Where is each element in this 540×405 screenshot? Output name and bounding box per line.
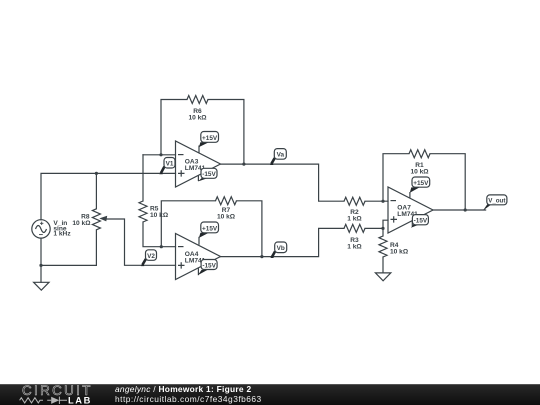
- wire R3 to OA7 + node: [365, 227, 383, 229]
- wire R8 top lead: [95, 173, 97, 208]
- resistor R3: [344, 224, 365, 232]
- junction dot: OA3 inverting node / R6 loop: [159, 153, 162, 156]
- resistor R7: [216, 197, 237, 205]
- flag +15V (OA7): [410, 177, 430, 193]
- wire R7 feedback loop left: [161, 201, 215, 247]
- junction dot: V_in bottom / ground: [39, 264, 42, 267]
- flag +15V (OA4): [199, 222, 219, 238]
- svg-text:10 kΩ: 10 kΩ: [390, 249, 409, 256]
- wire R1 feedback loop: [383, 154, 465, 210]
- wire R6 feedback loop right: [208, 100, 244, 165]
- junction dot: OA4 output / R7 loop: [260, 255, 263, 258]
- svg-text:10 kΩ: 10 kΩ: [217, 213, 236, 220]
- label V_in sine 1 kHz: [53, 220, 71, 238]
- junction dot: OA7 output / R1 loop: [464, 208, 467, 211]
- wire OA7 output to V_out: [433, 209, 486, 211]
- label R3 1 k: [347, 237, 362, 250]
- svg-text:10 kΩ: 10 kΩ: [188, 114, 207, 121]
- footer bar: [0, 384, 540, 405]
- svg-text:10 kΩ: 10 kΩ: [150, 212, 169, 219]
- svg-text:10 kΩ: 10 kΩ: [410, 169, 429, 176]
- label R1 10 k: [410, 162, 429, 176]
- R8 wiper arrow: [99, 216, 107, 222]
- wire OA3 - input: [143, 154, 176, 156]
- flag -15V (OA4): [198, 260, 217, 276]
- label R6 10 k: [188, 108, 207, 121]
- wire R2 to OA7 - input: [365, 200, 388, 202]
- flag -15V (OA3): [198, 168, 217, 181]
- junction dot: V_in top / R8: [95, 172, 98, 175]
- wire OA7 + input stub: [383, 220, 388, 228]
- label OA4 LM741: [185, 251, 206, 265]
- wire OA4 output to R3: [221, 228, 345, 256]
- svg-text:-15V: -15V: [202, 171, 216, 178]
- svg-text:Vb: Vb: [277, 245, 285, 252]
- wire R4 top lead: [382, 228, 384, 236]
- op-amp OA7: [388, 187, 433, 233]
- potentiometer R8: [92, 209, 106, 230]
- net flag Vb: [270, 242, 286, 258]
- svg-text:http://circuitlab.com/c7fe34g3: http://circuitlab.com/c7fe34g3fb663: [115, 394, 262, 404]
- label R5 10 k: [150, 206, 169, 219]
- resistor R2: [344, 197, 365, 205]
- svg-text:V1: V1: [166, 161, 174, 168]
- ground (V_in): [34, 282, 49, 290]
- net flag V1: [159, 158, 175, 175]
- wire V_in top to OA3 + input: [41, 173, 176, 219]
- svg-text:LAB: LAB: [68, 395, 92, 405]
- label OA7 LM741: [397, 205, 418, 219]
- op-amp OA4: [176, 234, 221, 280]
- label R7 10 k: [217, 207, 236, 221]
- junction dot: OA3 output / R6 loop: [242, 163, 245, 166]
- resistor R4: [379, 236, 387, 257]
- svg-text:V2: V2: [147, 253, 155, 260]
- wire R8 wiper to OA4 + input: [106, 219, 176, 265]
- wire R6 feedback loop left: [161, 100, 187, 155]
- junction dot: OA4 inverting node / R7 loop: [160, 245, 163, 248]
- op-amp OA3: [176, 141, 221, 187]
- net flag Va: [270, 149, 286, 165]
- net flag V2: [141, 250, 157, 266]
- svg-text:V_out: V_out: [488, 198, 505, 205]
- wire R7 feedback loop right: [237, 201, 262, 257]
- wire V_in bottom to ground junction: [40, 238, 42, 282]
- svg-text:-15V: -15V: [202, 262, 216, 269]
- label OA3 LM741: [185, 159, 206, 173]
- flag -15V (OA7): [411, 215, 429, 228]
- svg-text:-15V: -15V: [414, 218, 428, 225]
- junction dot: OA7 inverting node / R1 loop: [381, 200, 384, 203]
- svg-text:Va: Va: [277, 152, 285, 159]
- svg-text:1 kΩ: 1 kΩ: [347, 244, 362, 251]
- svg-text:+15V: +15V: [202, 225, 218, 232]
- label R4 10 k: [390, 242, 409, 256]
- svg-text:+15V: +15V: [413, 180, 429, 187]
- wire OA3 output to R2: [221, 164, 345, 201]
- svg-text:1 kΩ: 1 kΩ: [347, 216, 362, 223]
- ground (R4): [375, 273, 390, 281]
- CircuitLab logo resistor-diode glyph: [20, 397, 67, 404]
- resistor R1: [409, 150, 430, 158]
- svg-text:angelync / Homework 1: Figure: angelync / Homework 1: Figure 2: [115, 384, 251, 394]
- wire R5 bottom lead to OA4 - input: [143, 222, 176, 247]
- label R2 1 k: [347, 209, 362, 222]
- svg-text:1 kHz: 1 kHz: [53, 231, 71, 238]
- label R8 10 k: [72, 213, 91, 226]
- voltage source V_in: [32, 220, 50, 238]
- svg-text:10 kΩ: 10 kΩ: [72, 220, 91, 227]
- wire R5 top lead: [142, 155, 144, 201]
- wire V_in bottom to R8 bottom: [41, 230, 96, 266]
- resistor R5: [139, 201, 147, 222]
- svg-text:+15V: +15V: [202, 135, 218, 142]
- junction dot: OA7 non-inverting node / R4: [381, 227, 384, 230]
- wire R4 bottom lead to ground: [382, 257, 384, 273]
- net flag V_out: [483, 195, 507, 211]
- resistor R6: [187, 96, 208, 104]
- flag +15V (OA3): [199, 132, 219, 148]
